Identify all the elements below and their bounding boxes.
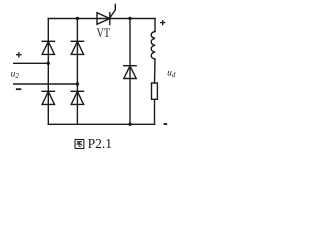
- diode D3 (bridge, lower-left): [42, 90, 54, 92]
- wire: AC input lower lead to node b: [14, 83, 78, 85]
- diode D2 (bridge, upper-right): [71, 40, 83, 42]
- caption: hanzi TU (figure) drawn as glyph: [75, 140, 84, 149]
- resistor R (load): [152, 83, 158, 99]
- node b: lower AC input / right leg junction: [76, 82, 79, 85]
- label: - polarity of u2: [16, 88, 21, 90]
- wire: AC input upper lead to node a: [14, 62, 49, 64]
- wire: bottom rail: [48, 123, 154, 125]
- svg-text:VT: VT: [97, 25, 110, 40]
- inductor L (filter choke): [151, 32, 155, 60]
- diode D1 (bridge, upper-left): [42, 40, 54, 42]
- node: top rail / right bridge leg junction: [76, 17, 79, 20]
- wire: load branch vertical (resistor to bottom rail): [154, 99, 156, 124]
- thyristor VT gate lead: [110, 5, 115, 18]
- node: top rail / freewheeling branch junction: [128, 17, 131, 20]
- wire: load branch vertical (top rail to inductor): [154, 19, 156, 32]
- wire: freewheeling diode branch vertical: [129, 19, 131, 125]
- wire: load branch vertical (inductor to resistor): [154, 59, 157, 83]
- label: + polarity of u2: [16, 52, 22, 57]
- wire: left bridge leg vertical: [47, 19, 49, 125]
- node a: upper AC input / left leg junction: [47, 62, 50, 65]
- wire: top rail from left-leg corner to load corner: [48, 18, 155, 20]
- svg-text:ud: ud: [167, 69, 176, 80]
- thyristor VT triangle and cathode bar: [97, 13, 110, 25]
- diode VD (freewheeling): [124, 65, 136, 67]
- svg-text:P2.1: P2.1: [88, 136, 112, 151]
- wire: right bridge leg vertical: [76, 19, 78, 125]
- svg-text:u2: u2: [11, 69, 20, 80]
- diode D4 (bridge, lower-right): [71, 90, 83, 92]
- label: - polarity of ud: [164, 123, 168, 125]
- label: + polarity of ud: [160, 20, 165, 25]
- node: bottom rail / freewheeling branch junction: [128, 123, 131, 126]
